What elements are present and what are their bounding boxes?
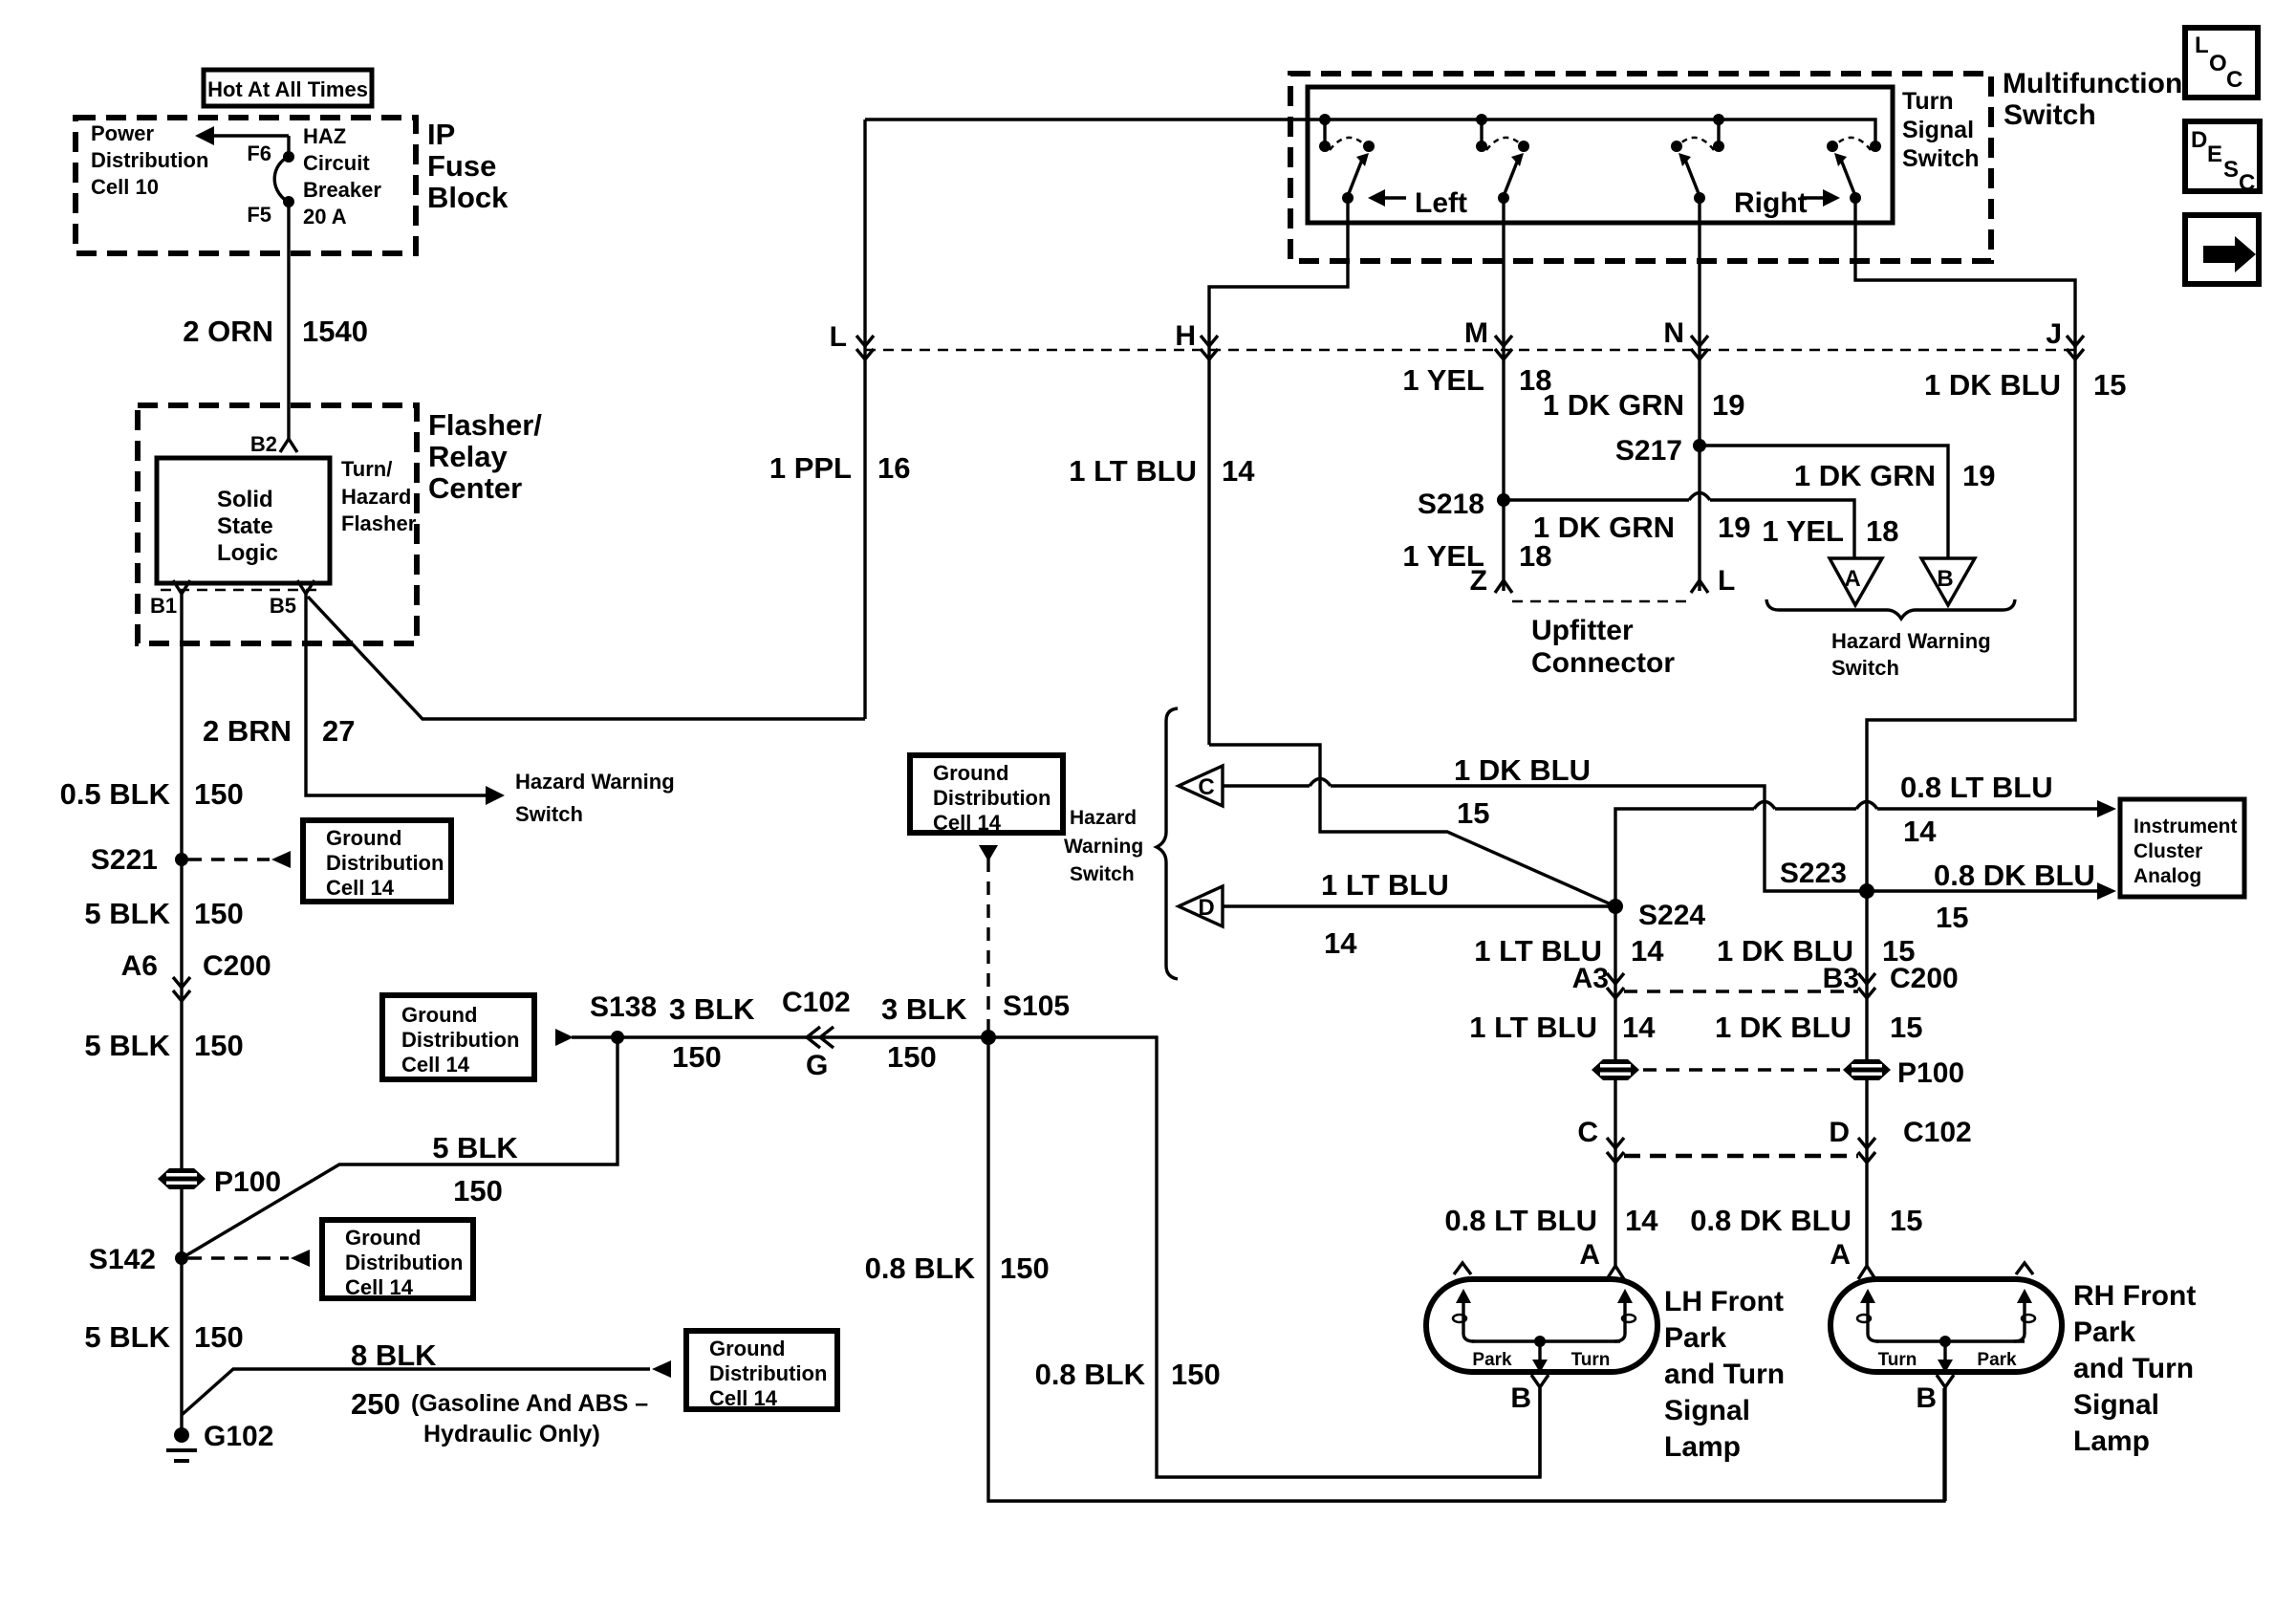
svg-text:A: A bbox=[1579, 1239, 1600, 1271]
svg-text:5 BLK: 5 BLK bbox=[84, 1029, 170, 1062]
connector row dashed line bbox=[865, 349, 2075, 352]
svg-text:5 BLK: 5 BLK bbox=[432, 1131, 518, 1164]
svg-text:Ground: Ground bbox=[326, 826, 401, 850]
label Turn/Hazard Flasher bbox=[341, 457, 417, 535]
instrument cluster analog box bbox=[2120, 799, 2244, 897]
svg-text:1 DK GRN: 1 DK GRN bbox=[1794, 459, 1936, 492]
connector C102 C D bbox=[1577, 1117, 1971, 1163]
switch common rail wire bbox=[865, 120, 1875, 141]
hazard warning switch brace (left) bbox=[1064, 708, 1178, 979]
svg-text:S: S bbox=[2223, 157, 2239, 183]
ground distribution cell 14 box (S138) bbox=[382, 995, 534, 1079]
svg-text:Warning: Warning bbox=[1064, 836, 1143, 858]
svg-text:Block: Block bbox=[427, 181, 509, 214]
svg-text:(Gasoline And ABS –: (Gasoline And ABS – bbox=[411, 1390, 648, 1417]
off-page triangle B bbox=[1921, 558, 1975, 605]
dashed wire S221 to ground cell bbox=[188, 851, 291, 868]
flasher bottom pin dashed line bbox=[161, 589, 321, 592]
label IP Fuse Block bbox=[427, 118, 509, 214]
RH front park turn signal lamp bbox=[1830, 1263, 2062, 1373]
svg-text:Hazard Warning: Hazard Warning bbox=[1831, 629, 1991, 653]
Right arrow label bbox=[1734, 187, 1840, 219]
pin L bbox=[830, 321, 874, 359]
svg-text:C200: C200 bbox=[203, 950, 271, 982]
label 5 BLK 150 bbox=[84, 1320, 243, 1354]
wire ground cell to S138 to S105 3 BLK 150 bbox=[555, 1029, 988, 1046]
svg-text:Circuit: Circuit bbox=[303, 151, 370, 175]
wire B5 2 BRN 27 to hazard warning switch bbox=[306, 594, 675, 826]
label 1 YEL 18 (M) bbox=[1402, 363, 1551, 397]
node S217 bbox=[1615, 435, 1706, 467]
svg-text:Fuse: Fuse bbox=[427, 149, 496, 183]
wire S223 down 1 DK BLU 15 bbox=[1865, 891, 1868, 1268]
svg-text:L: L bbox=[1718, 565, 1735, 597]
svg-text:B3: B3 bbox=[1823, 963, 1859, 994]
ground distribution cell 14 box (S105) bbox=[910, 755, 1063, 835]
grommet P100 pair bbox=[1592, 1057, 1964, 1089]
connector C102 G on wire bbox=[782, 987, 851, 1081]
svg-text:O: O bbox=[2209, 51, 2227, 76]
svg-text:Cell 14: Cell 14 bbox=[709, 1386, 778, 1410]
switch contact set 1 bbox=[1319, 114, 1375, 204]
circuit breaker HAZ 20A bbox=[274, 151, 294, 207]
wire arrow to Power Distribution bbox=[195, 126, 289, 157]
svg-text:150: 150 bbox=[194, 897, 244, 930]
svg-text:IP: IP bbox=[427, 118, 455, 151]
dashed wire S105 up to ground cell bbox=[979, 845, 998, 1037]
svg-text:Distribution: Distribution bbox=[709, 1361, 827, 1385]
svg-text:A6: A6 bbox=[121, 950, 158, 982]
svg-text:Switch: Switch bbox=[1070, 863, 1135, 885]
svg-text:0.8 DK BLU: 0.8 DK BLU bbox=[1690, 1204, 1852, 1237]
label 1 YEL 18 (A wire) bbox=[1762, 514, 1898, 548]
label 1 LT BLU 14 bbox=[1469, 1011, 1656, 1044]
svg-text:150: 150 bbox=[194, 1320, 244, 1354]
svg-text:Logic: Logic bbox=[217, 540, 278, 566]
label Upfitter Connector bbox=[1531, 615, 1675, 679]
svg-text:B2: B2 bbox=[250, 432, 277, 456]
node S142 bbox=[89, 1244, 188, 1275]
svg-text:Hazard Warning: Hazard Warning bbox=[515, 770, 675, 794]
pin B2 bbox=[250, 432, 297, 456]
svg-text:5 BLK: 5 BLK bbox=[84, 897, 170, 930]
dashed wire S142 to ground cell bbox=[188, 1250, 310, 1267]
svg-text:Hazard: Hazard bbox=[1070, 807, 1137, 829]
svg-text:C: C bbox=[2239, 170, 2255, 196]
wire S217 to B triangle 1 DK GRN 19 bbox=[1700, 446, 1995, 558]
svg-text:Ground: Ground bbox=[401, 1003, 477, 1027]
svg-text:Signal: Signal bbox=[1664, 1395, 1750, 1426]
svg-text:F5: F5 bbox=[247, 203, 271, 227]
svg-text:150: 150 bbox=[194, 777, 244, 811]
svg-text:G102: G102 bbox=[204, 1421, 273, 1452]
svg-text:Flasher/: Flasher/ bbox=[428, 408, 542, 442]
svg-text:J: J bbox=[2046, 318, 2062, 350]
label Turn Signal Switch bbox=[1902, 88, 1980, 172]
svg-text:Turn: Turn bbox=[1878, 1350, 1917, 1370]
svg-text:150: 150 bbox=[672, 1040, 722, 1074]
svg-text:Ground: Ground bbox=[345, 1226, 421, 1250]
wire S224 to instrument cluster 0.8 LT BLU 14 with hops bbox=[1615, 771, 2116, 906]
svg-text:Breaker: Breaker bbox=[303, 178, 381, 202]
svg-text:L: L bbox=[2195, 33, 2209, 58]
svg-text:Lamp: Lamp bbox=[2073, 1425, 2150, 1457]
svg-text:D: D bbox=[1198, 895, 1214, 921]
svg-text:14: 14 bbox=[1903, 815, 1937, 848]
svg-text:14: 14 bbox=[1625, 1204, 1658, 1237]
label Flasher/Relay Center bbox=[428, 408, 542, 505]
pin Z bbox=[1470, 565, 1512, 597]
svg-text:14: 14 bbox=[1222, 454, 1255, 488]
pin J bbox=[2046, 318, 2084, 359]
connector C200 A3 B3 bbox=[1572, 963, 1959, 998]
Multifunction Switch dashed box bbox=[1290, 74, 1991, 261]
label 0.5 BLK 150 bbox=[60, 777, 244, 811]
svg-text:19: 19 bbox=[1718, 511, 1750, 544]
svg-text:8 BLK: 8 BLK bbox=[351, 1338, 437, 1372]
triangle C bbox=[1179, 766, 1223, 806]
IP Fuse Block dashed box bbox=[76, 118, 416, 253]
svg-text:1 DK GRN: 1 DK GRN bbox=[1533, 511, 1675, 544]
svg-text:Center: Center bbox=[428, 471, 522, 505]
label 5 BLK 150 bbox=[84, 897, 243, 930]
node S221 bbox=[91, 844, 188, 876]
svg-text:C: C bbox=[1198, 774, 1214, 800]
svg-text:C102: C102 bbox=[782, 987, 851, 1018]
Turn/Hazard Flasher solid state logic box bbox=[157, 458, 330, 583]
Flasher/Relay Center dashed box bbox=[138, 405, 417, 643]
node S218 bbox=[1418, 489, 1510, 520]
svg-text:Distribution: Distribution bbox=[326, 851, 444, 875]
wire D to S224 1 LT BLU 14 bbox=[1223, 868, 1615, 960]
switch contact set 2 bbox=[1476, 114, 1529, 204]
arrow icon box bbox=[2185, 215, 2259, 284]
svg-text:1 YEL: 1 YEL bbox=[1762, 514, 1844, 548]
svg-text:P100: P100 bbox=[1897, 1057, 1964, 1089]
svg-text:14: 14 bbox=[1324, 926, 1357, 960]
svg-text:State: State bbox=[217, 513, 273, 539]
svg-text:3 BLK: 3 BLK bbox=[881, 992, 967, 1026]
label Multifunction Switch bbox=[2003, 68, 2182, 131]
LH front park turn signal lamp bbox=[1426, 1263, 1657, 1373]
switch contact set 4 bbox=[1827, 138, 1881, 204]
svg-text:A: A bbox=[1844, 566, 1860, 592]
wire 2 ORN 1540 bbox=[287, 202, 290, 439]
svg-text:C: C bbox=[2226, 67, 2242, 93]
pin N bbox=[1663, 317, 1708, 359]
svg-text:S221: S221 bbox=[91, 844, 158, 876]
svg-text:D: D bbox=[2191, 127, 2207, 153]
svg-text:Upfitter: Upfitter bbox=[1531, 615, 1634, 646]
svg-text:Cell 14: Cell 14 bbox=[345, 1275, 414, 1299]
grommet P100 left bbox=[158, 1166, 281, 1198]
svg-text:15: 15 bbox=[2093, 368, 2126, 402]
svg-text:0.8 BLK: 0.8 BLK bbox=[865, 1251, 976, 1285]
svg-text:Right: Right bbox=[1734, 187, 1808, 219]
svg-text:Park: Park bbox=[1664, 1322, 1726, 1354]
svg-text:Distribution: Distribution bbox=[345, 1251, 463, 1274]
ground G102 bbox=[166, 1421, 273, 1461]
svg-text:P100: P100 bbox=[214, 1166, 281, 1198]
pin M bbox=[1464, 317, 1512, 359]
svg-text:S223: S223 bbox=[1780, 858, 1847, 889]
svg-text:H: H bbox=[1175, 320, 1196, 352]
svg-text:15: 15 bbox=[1936, 901, 1968, 934]
svg-text:250: 250 bbox=[351, 1387, 401, 1421]
svg-text:Relay: Relay bbox=[428, 440, 508, 473]
svg-text:150: 150 bbox=[453, 1174, 503, 1207]
pin B1 bbox=[150, 580, 190, 618]
node S138 bbox=[590, 991, 657, 1044]
svg-text:20 A: 20 A bbox=[303, 205, 347, 228]
svg-text:2 ORN: 2 ORN bbox=[183, 315, 273, 348]
svg-text:Cell 14: Cell 14 bbox=[401, 1053, 470, 1077]
svg-text:D: D bbox=[1829, 1117, 1850, 1148]
label 1 DK BLU 15 bbox=[1715, 1011, 1922, 1044]
svg-text:150: 150 bbox=[1000, 1251, 1050, 1285]
wire S105 right 0.8 BLK 150 to LH lamp B bbox=[988, 1037, 1540, 1477]
svg-text:0.8 LT BLU: 0.8 LT BLU bbox=[1444, 1204, 1597, 1237]
svg-text:Switch: Switch bbox=[1902, 145, 1980, 172]
svg-text:Multifunction: Multifunction bbox=[2003, 68, 2182, 99]
svg-text:Hydraulic Only): Hydraulic Only) bbox=[423, 1421, 600, 1447]
wire B5 1 PPL diagonal bbox=[308, 597, 865, 719]
svg-text:Left: Left bbox=[1415, 187, 1467, 219]
svg-text:S138: S138 bbox=[590, 991, 657, 1023]
svg-text:B: B bbox=[1510, 1382, 1531, 1414]
pin H bbox=[1175, 320, 1218, 359]
label 0.8 DK BLU 15 bbox=[1690, 1204, 1922, 1237]
switch contact set 3 bbox=[1671, 114, 1724, 204]
svg-text:Cell 14: Cell 14 bbox=[933, 811, 1002, 835]
connector A6 C200 bbox=[121, 950, 271, 1001]
LOC icon box bbox=[2185, 28, 2258, 98]
label 0.8 LT BLU 14 bbox=[1444, 1204, 1658, 1237]
svg-text:Cell 10: Cell 10 bbox=[91, 175, 159, 199]
ground distribution cell 14 box (S221) bbox=[303, 820, 451, 902]
hazard warning switch brace (right) bbox=[1766, 599, 2015, 680]
upfitter connector dashed line bbox=[1512, 600, 1691, 603]
label 1 LT BLU 14 (H wire) bbox=[1069, 454, 1255, 488]
svg-text:Connector: Connector bbox=[1531, 647, 1675, 679]
svg-text:1540: 1540 bbox=[302, 315, 368, 348]
svg-text:3 BLK: 3 BLK bbox=[669, 992, 755, 1026]
svg-text:Cell 14: Cell 14 bbox=[326, 876, 395, 900]
triangle D bbox=[1179, 886, 1223, 926]
svg-text:Turn/: Turn/ bbox=[341, 457, 392, 481]
wire S223 to instrument cluster 0.8 DK BLU 15 bbox=[1867, 859, 2116, 934]
svg-text:L: L bbox=[830, 321, 847, 353]
ground distribution cell 14 box (S142) bbox=[322, 1220, 473, 1299]
svg-text:RH Front: RH Front bbox=[2073, 1280, 2196, 1312]
svg-text:2 BRN: 2 BRN bbox=[203, 714, 292, 748]
wire H to S224 bbox=[1209, 745, 1615, 906]
svg-text:Instrument: Instrument bbox=[2134, 816, 2238, 838]
svg-text:1 LT BLU: 1 LT BLU bbox=[1469, 1011, 1597, 1044]
Turn Signal Switch inner box bbox=[1308, 87, 1893, 223]
svg-text:5 BLK: 5 BLK bbox=[84, 1320, 170, 1354]
pin L upfitter bbox=[1691, 565, 1735, 597]
svg-text:0.8 BLK: 0.8 BLK bbox=[1035, 1358, 1146, 1391]
svg-text:1 YEL: 1 YEL bbox=[1402, 363, 1484, 397]
svg-text:and Turn: and Turn bbox=[1664, 1359, 1785, 1390]
node S105 bbox=[981, 990, 1070, 1045]
label 1 DK BLU 15 (J) bbox=[1924, 368, 2126, 402]
pin B RH lamp bbox=[1916, 1375, 1954, 1501]
label 1 DK GRN 19 (below S218) bbox=[1533, 511, 1751, 544]
svg-text:Turn: Turn bbox=[1571, 1350, 1611, 1370]
svg-text:Flasher: Flasher bbox=[341, 511, 417, 535]
svg-text:S105: S105 bbox=[1003, 990, 1070, 1022]
svg-text:C200: C200 bbox=[1890, 963, 1959, 994]
svg-text:Distribution: Distribution bbox=[91, 148, 208, 172]
label 3 BLK 150 (left) bbox=[669, 992, 755, 1074]
pin A LH lamp bbox=[1579, 1239, 1624, 1279]
svg-text:18: 18 bbox=[1519, 539, 1551, 573]
svg-text:C: C bbox=[1577, 1117, 1598, 1148]
pin B LH lamp bbox=[1510, 1375, 1549, 1477]
svg-text:15: 15 bbox=[1890, 1204, 1922, 1237]
node S223 bbox=[1780, 858, 1874, 899]
svg-text:Park: Park bbox=[1977, 1350, 2017, 1370]
wire S105 down 0.8 BLK 150 to RH lamp B bbox=[988, 1037, 1944, 1501]
svg-text:19: 19 bbox=[1712, 388, 1744, 422]
svg-text:1 DK BLU: 1 DK BLU bbox=[1454, 753, 1591, 787]
svg-text:B5: B5 bbox=[270, 594, 296, 618]
svg-text:15: 15 bbox=[1457, 796, 1489, 830]
svg-text:150: 150 bbox=[1171, 1358, 1221, 1391]
label 1 YEL 18 (below S218 left) bbox=[1402, 539, 1551, 573]
svg-text:16: 16 bbox=[877, 451, 910, 485]
wire 1 PPL 16 vertical bbox=[863, 120, 866, 719]
svg-text:F6: F6 bbox=[247, 141, 271, 165]
label 5 BLK 150 bbox=[84, 1029, 243, 1062]
wire S224 down 1 LT BLU 14 bbox=[1614, 906, 1616, 1268]
switch blade 1 wire to H bbox=[1209, 198, 1348, 745]
svg-text:HAZ: HAZ bbox=[303, 124, 346, 148]
svg-text:14: 14 bbox=[1622, 1011, 1656, 1044]
svg-text:Z: Z bbox=[1470, 565, 1487, 597]
svg-text:Park: Park bbox=[2073, 1316, 2135, 1348]
svg-text:C102: C102 bbox=[1903, 1117, 1972, 1148]
svg-text:B: B bbox=[1937, 566, 1953, 592]
svg-text:LH Front: LH Front bbox=[1664, 1286, 1784, 1317]
svg-text:14: 14 bbox=[1631, 934, 1664, 968]
label Power Distribution Cell 10 bbox=[91, 121, 208, 199]
svg-text:Signal: Signal bbox=[2073, 1389, 2159, 1421]
svg-text:Distribution: Distribution bbox=[401, 1028, 519, 1052]
svg-text:Switch: Switch bbox=[515, 802, 583, 826]
label HAZ Circuit Breaker 20 A bbox=[303, 124, 381, 228]
wire S218 to A triangle with hop over N bbox=[1504, 493, 1854, 559]
svg-text:1 LT BLU: 1 LT BLU bbox=[1321, 868, 1449, 902]
pin B5 bbox=[270, 580, 314, 618]
label RH Front Park and Turn Signal Lamp bbox=[2073, 1280, 2196, 1457]
svg-text:Cluster: Cluster bbox=[2134, 840, 2202, 862]
svg-text:18: 18 bbox=[1866, 514, 1898, 548]
wire B1 ground 0.5/5 BLK 150 bbox=[180, 594, 183, 1435]
wire C to S223 1 DK BLU 15 with hop bbox=[1223, 753, 1867, 891]
svg-text:Signal: Signal bbox=[1902, 117, 1974, 143]
svg-text:Switch: Switch bbox=[2004, 99, 2096, 131]
svg-text:150: 150 bbox=[887, 1040, 937, 1074]
svg-text:A: A bbox=[1830, 1239, 1851, 1271]
svg-text:Hazard: Hazard bbox=[341, 485, 411, 509]
Left arrow label bbox=[1368, 187, 1467, 219]
svg-text:A3: A3 bbox=[1572, 963, 1609, 994]
svg-text:S218: S218 bbox=[1418, 489, 1484, 520]
svg-text:N: N bbox=[1663, 317, 1684, 349]
svg-text:1 LT BLU: 1 LT BLU bbox=[1069, 454, 1197, 488]
svg-text:Solid: Solid bbox=[217, 487, 273, 512]
svg-text:1 DK BLU: 1 DK BLU bbox=[1924, 368, 2061, 402]
svg-text:0.5 BLK: 0.5 BLK bbox=[60, 777, 171, 811]
svg-text:E: E bbox=[2207, 141, 2222, 167]
label LH Front Park and Turn Signal Lamp bbox=[1664, 1286, 1785, 1463]
svg-text:0.8 LT BLU: 0.8 LT BLU bbox=[1900, 771, 2053, 804]
node S224 bbox=[1608, 899, 1705, 931]
svg-text:Power: Power bbox=[91, 121, 154, 145]
DESC icon box bbox=[2185, 121, 2260, 196]
svg-text:150: 150 bbox=[194, 1029, 244, 1062]
svg-text:Distribution: Distribution bbox=[933, 786, 1051, 810]
svg-text:B1: B1 bbox=[150, 594, 177, 618]
svg-text:1 PPL: 1 PPL bbox=[769, 451, 852, 485]
wire 5 BLK 150 from S138 elbow to S142 bbox=[182, 1037, 617, 1258]
svg-text:Lamp: Lamp bbox=[1664, 1431, 1741, 1463]
ground distribution cell 14 box (8 BLK) bbox=[686, 1331, 837, 1410]
svg-text:S217: S217 bbox=[1615, 435, 1682, 467]
svg-text:19: 19 bbox=[1962, 459, 1995, 492]
label 1 DK GRN 19 (N) bbox=[1543, 388, 1745, 422]
pin A RH lamp bbox=[1830, 1239, 1875, 1279]
svg-text:G: G bbox=[806, 1050, 828, 1081]
svg-text:Ground: Ground bbox=[933, 761, 1008, 785]
switch blade 4 wire to J bbox=[1855, 198, 2075, 891]
switch blade 3 wire N bbox=[1698, 198, 1700, 591]
svg-text:B: B bbox=[1916, 1382, 1937, 1414]
label 3 BLK 150 (right) bbox=[881, 992, 967, 1074]
svg-text:Hot At All Times: Hot At All Times bbox=[207, 77, 368, 101]
svg-text:Turn: Turn bbox=[1902, 88, 1954, 115]
svg-text:1 DK BLU: 1 DK BLU bbox=[1715, 1011, 1852, 1044]
svg-text:S142: S142 bbox=[89, 1244, 156, 1275]
svg-text:1 DK GRN: 1 DK GRN bbox=[1543, 388, 1684, 422]
svg-text:Ground: Ground bbox=[709, 1337, 785, 1360]
svg-text:M: M bbox=[1464, 317, 1488, 349]
svg-text:Analog: Analog bbox=[2134, 865, 2201, 887]
svg-text:and Turn: and Turn bbox=[2073, 1353, 2194, 1384]
Hot At All Times box bbox=[204, 70, 372, 106]
svg-text:Switch: Switch bbox=[1831, 656, 1899, 680]
switch blade 2 wire M bbox=[1502, 198, 1505, 591]
wire 8 BLK 250 bbox=[182, 1338, 671, 1447]
svg-text:Park: Park bbox=[1472, 1350, 1512, 1370]
svg-text:0.8 DK BLU: 0.8 DK BLU bbox=[1934, 859, 2095, 892]
svg-text:S224: S224 bbox=[1638, 900, 1705, 931]
svg-text:27: 27 bbox=[322, 714, 355, 748]
off-page triangle A bbox=[1830, 558, 1882, 605]
svg-text:15: 15 bbox=[1890, 1011, 1922, 1044]
